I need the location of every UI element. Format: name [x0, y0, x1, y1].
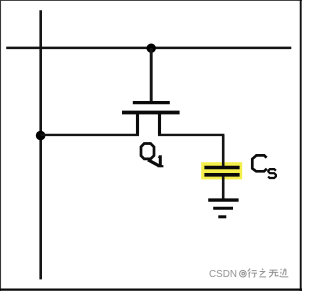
- watermark glyph 行: [248, 269, 257, 278]
- node junction BL-source: [36, 131, 46, 141]
- capacitor Cs top plate: [204, 166, 239, 170]
- ground bar 3: [218, 215, 226, 218]
- capacitor highlight: [201, 162, 242, 179]
- wire capacitor stem upper: [222, 135, 225, 167]
- watermark glyph @: [240, 270, 247, 277]
- svg-text:CSDN: CSDN: [209, 269, 237, 280]
- wire gate stub: [150, 48, 153, 103]
- label Cs: [252, 155, 276, 178]
- transistor Q1 channel bar: [122, 111, 180, 115]
- wire drain to capacitor: [158, 134, 224, 136]
- wire capacitor stem lower: [222, 176, 225, 199]
- label Q1: [141, 144, 163, 167]
- watermark glyph 边: [280, 268, 289, 277]
- capacitor Cs bottom plate: [204, 173, 239, 177]
- border frame: [0, 0, 302, 2]
- ground bar 2: [213, 207, 233, 210]
- node junction WL-gate: [147, 44, 156, 53]
- wire source to bit line: [41, 134, 140, 136]
- watermark glyph 之: [259, 269, 266, 277]
- transistor Q1 gate bar: [133, 101, 170, 104]
- transistor Q1 source leg: [136, 114, 139, 136]
- ground bar 1: [208, 198, 238, 201]
- wire bit line BL: [39, 10, 42, 279]
- wire word line WL: [6, 47, 291, 50]
- watermark glyph 无: [269, 270, 278, 277]
- transistor Q1 drain leg: [158, 114, 161, 136]
